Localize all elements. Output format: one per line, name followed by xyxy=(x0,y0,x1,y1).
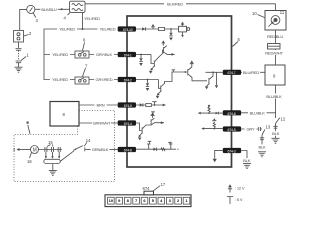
svg-text:YEL/RED: YEL/RED xyxy=(59,27,75,32)
svg-text:15: 15 xyxy=(48,140,53,145)
svg-text:674-9: 674-9 xyxy=(124,104,132,108)
svg-text:GRY/RED: GRY/RED xyxy=(96,77,113,82)
svg-text:: 5 V: : 5 V xyxy=(235,197,243,202)
svg-text:GRY: GRY xyxy=(246,127,255,132)
svg-text:674-1: 674-1 xyxy=(124,54,132,58)
svg-text:674-4: 674-4 xyxy=(124,122,132,126)
svg-text:674: 674 xyxy=(143,186,151,191)
svg-text:YEL/RED: YEL/RED xyxy=(52,77,68,82)
svg-text:BRN: BRN xyxy=(97,103,105,108)
svg-text:13: 13 xyxy=(266,125,271,130)
svg-text:M: M xyxy=(33,148,37,154)
svg-text:BLK/BLU: BLK/BLU xyxy=(41,7,56,12)
svg-text:YEL/RED: YEL/RED xyxy=(100,27,116,32)
svg-text:674-8: 674-8 xyxy=(124,149,132,153)
svg-text:YEL/RED: YEL/RED xyxy=(52,52,68,57)
svg-text:BLK/RED: BLK/RED xyxy=(167,1,183,6)
svg-text:674-7: 674-7 xyxy=(228,71,236,75)
svg-text:674-10: 674-10 xyxy=(123,28,133,32)
svg-text:GRY/BLK: GRY/BLK xyxy=(96,52,113,57)
svg-text:674-6: 674-6 xyxy=(228,112,236,116)
svg-text:BLU/BLK: BLU/BLK xyxy=(250,111,266,116)
svg-text:BLU/RED: BLU/RED xyxy=(243,70,259,75)
svg-text:BLK: BLK xyxy=(258,144,266,149)
svg-text:RED/WHT: RED/WHT xyxy=(265,50,283,55)
svg-text:674-5: 674-5 xyxy=(228,128,236,132)
svg-text:10: 10 xyxy=(252,11,257,16)
svg-text:17: 17 xyxy=(161,182,166,187)
svg-text:YEL/RED: YEL/RED xyxy=(84,16,100,21)
svg-text:GRN/WHT: GRN/WHT xyxy=(93,121,112,126)
svg-text:: 12 V: : 12 V xyxy=(235,186,245,191)
svg-text:11: 11 xyxy=(280,10,285,15)
svg-text:BLK: BLK xyxy=(272,131,280,136)
svg-text:16: 16 xyxy=(27,159,32,164)
svg-text:BLK: BLK xyxy=(243,158,251,163)
svg-text:BLU/BLK: BLU/BLK xyxy=(266,94,282,99)
svg-text:674-3: 674-3 xyxy=(228,150,236,154)
svg-text:10: 10 xyxy=(109,198,114,203)
svg-text:GRN/BLK: GRN/BLK xyxy=(92,147,109,152)
svg-text:674-2: 674-2 xyxy=(124,79,132,83)
svg-text:12: 12 xyxy=(281,117,286,122)
svg-text:14: 14 xyxy=(86,138,91,143)
